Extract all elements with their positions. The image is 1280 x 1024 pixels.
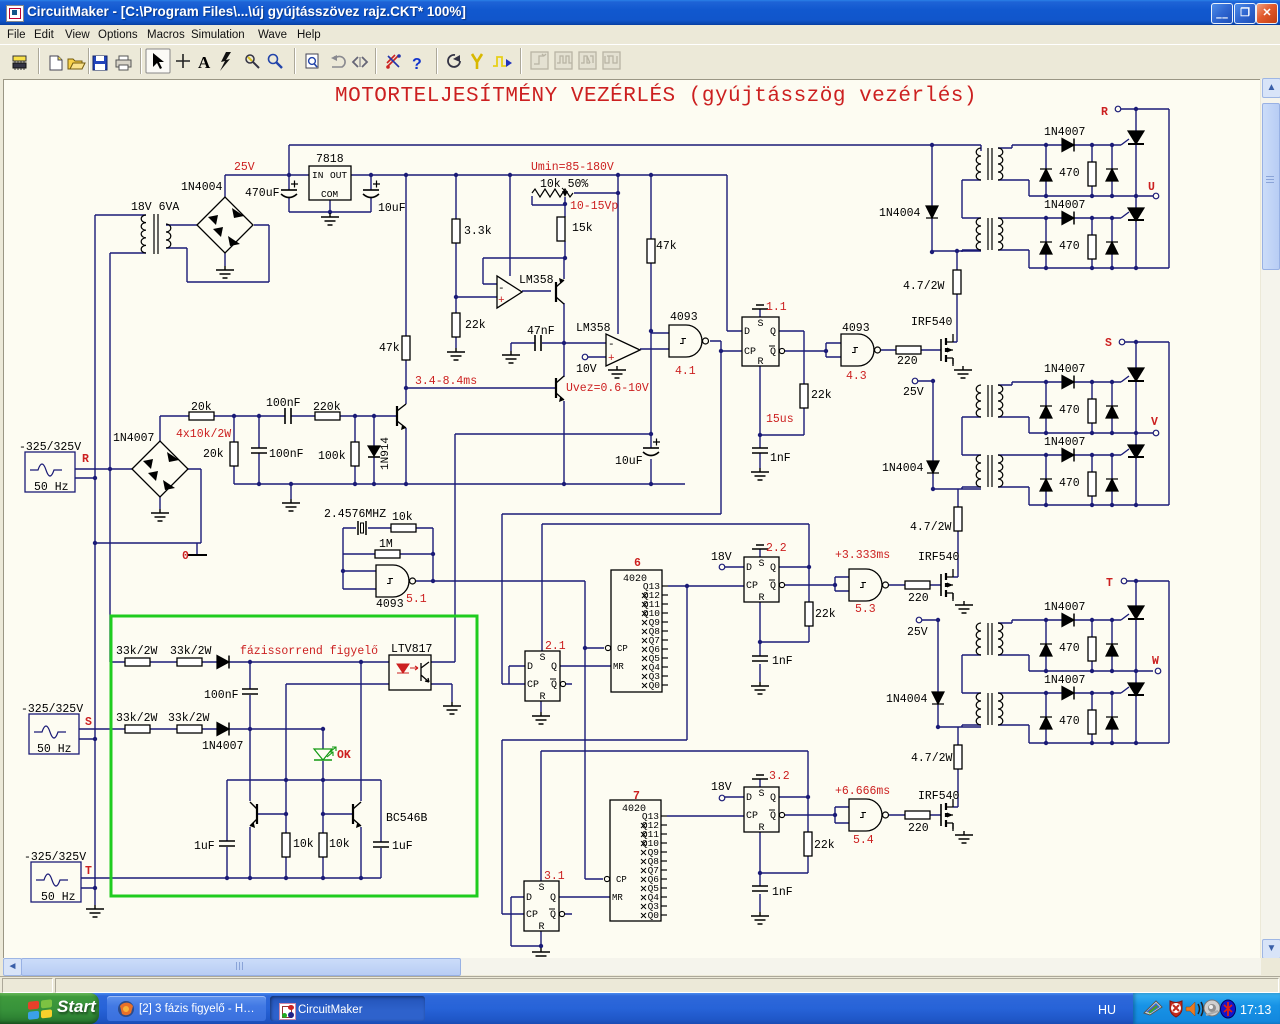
svg-text:R: R [1101, 106, 1108, 119]
svg-text:33k/2W: 33k/2W [168, 712, 210, 725]
svg-text:5.3: 5.3 [855, 603, 876, 616]
svg-text:D: D [746, 793, 752, 804]
svg-text:6: 6 [634, 557, 641, 570]
svg-text:IN: IN [312, 170, 323, 181]
svg-text:3.1: 3.1 [544, 870, 565, 883]
svg-text:10uF: 10uF [378, 202, 406, 215]
svg-text:S: S [85, 716, 92, 729]
svg-text:33k/2W: 33k/2W [116, 712, 158, 725]
svg-text:BC546B: BC546B [386, 812, 428, 825]
svg-text:-325/325V: -325/325V [19, 441, 81, 454]
svg-text:22k: 22k [465, 319, 486, 332]
svg-text:4.7/2W: 4.7/2W [910, 521, 952, 534]
svg-text:100nF: 100nF [269, 448, 304, 461]
svg-text:20k: 20k [203, 448, 224, 461]
svg-text:47nF: 47nF [527, 325, 555, 338]
svg-text:R: R [759, 593, 765, 604]
svg-text:4093: 4093 [376, 598, 404, 611]
svg-text:Q: Q [550, 910, 556, 921]
svg-text:CP: CP [526, 910, 538, 921]
svg-text:R: R [759, 823, 765, 834]
svg-text:15k: 15k [572, 222, 593, 235]
svg-text:-325/325V: -325/325V [24, 851, 86, 864]
svg-text:S: S [759, 789, 765, 800]
svg-text:22k: 22k [814, 839, 835, 852]
svg-text:22k: 22k [811, 389, 832, 402]
svg-text:25V: 25V [907, 626, 928, 639]
svg-text:50 Hz: 50 Hz [34, 481, 69, 494]
svg-text:470: 470 [1059, 477, 1080, 490]
svg-text:220: 220 [897, 355, 918, 368]
svg-text:7: 7 [633, 790, 640, 803]
svg-text:Uvez=0.6-10V: Uvez=0.6-10V [566, 382, 649, 395]
svg-text:W: W [1152, 655, 1159, 668]
svg-text:22k: 22k [815, 608, 836, 621]
svg-text:20k: 20k [191, 401, 212, 414]
svg-text:Q: Q [770, 793, 776, 804]
svg-text:220: 220 [908, 592, 929, 605]
svg-text:1nF: 1nF [770, 452, 791, 465]
svg-text:CP: CP [617, 644, 628, 654]
svg-text:220: 220 [908, 822, 929, 835]
svg-text:+: + [608, 353, 615, 365]
svg-text:470: 470 [1059, 240, 1080, 253]
svg-text:470: 470 [1059, 642, 1080, 655]
svg-text:5.4: 5.4 [853, 834, 874, 847]
svg-text:50 Hz: 50 Hz [41, 891, 76, 904]
svg-text:CP: CP [616, 875, 627, 885]
svg-text:Q: Q [770, 811, 776, 822]
svg-text:10uF: 10uF [615, 455, 643, 468]
svg-text:1M: 1M [379, 538, 393, 551]
svg-text:470: 470 [1059, 167, 1080, 180]
svg-text:MR: MR [612, 893, 623, 903]
svg-text:Q: Q [770, 563, 776, 574]
svg-text:3.2: 3.2 [769, 770, 790, 783]
svg-text:R: R [540, 692, 546, 703]
svg-text:Q: Q [770, 327, 776, 338]
svg-text:10V: 10V [576, 363, 597, 376]
svg-text:1.1: 1.1 [766, 301, 787, 314]
svg-text:R: R [758, 357, 764, 368]
svg-text:1N4004: 1N4004 [879, 207, 921, 220]
svg-text:470: 470 [1059, 715, 1080, 728]
svg-text:T: T [1106, 577, 1113, 590]
svg-text:S: S [759, 559, 765, 570]
svg-text:IRF540: IRF540 [918, 790, 960, 803]
svg-text:15us: 15us [766, 413, 794, 426]
svg-text:-: - [498, 283, 505, 295]
svg-text:1N4007: 1N4007 [1044, 601, 1085, 614]
svg-text:47k: 47k [656, 240, 677, 253]
svg-text:1N4004: 1N4004 [882, 462, 924, 475]
svg-text:47k: 47k [379, 342, 400, 355]
svg-text:1N4007: 1N4007 [1044, 126, 1085, 139]
svg-text:100nF: 100nF [266, 397, 301, 410]
svg-text:COM: COM [321, 189, 338, 200]
svg-text:D: D [527, 662, 533, 673]
svg-text:Umin=85-180V: Umin=85-180V [531, 161, 614, 174]
svg-text:1N4007: 1N4007 [1044, 199, 1085, 212]
svg-text:Q: Q [550, 893, 556, 904]
svg-text:OK: OK [337, 749, 351, 762]
svg-text:S: S [540, 653, 546, 664]
svg-text:-: - [608, 339, 615, 351]
svg-text:MOTORTELJESÍTMÉNY VEZÉRLÉS (gy: MOTORTELJESÍTMÉNY VEZÉRLÉS (gyújtásszög … [335, 84, 977, 108]
svg-text:1N4007: 1N4007 [113, 432, 154, 445]
svg-text:10k: 10k [293, 838, 314, 851]
svg-text:18V: 18V [711, 781, 732, 794]
svg-text:25V: 25V [903, 386, 924, 399]
svg-text:18V 6VA: 18V 6VA [131, 201, 179, 214]
svg-text:33k/2W: 33k/2W [116, 645, 158, 658]
svg-text:470uF: 470uF [245, 187, 280, 200]
svg-text:-325/325V: -325/325V [21, 703, 83, 716]
svg-text:18V: 18V [711, 551, 732, 564]
svg-text:1N4007: 1N4007 [1044, 436, 1085, 449]
svg-text:V: V [1151, 416, 1158, 429]
svg-text:U: U [1148, 181, 1155, 194]
svg-text:+6.666ms: +6.666ms [835, 785, 890, 798]
svg-text:+3.333ms: +3.333ms [835, 549, 890, 562]
svg-text:50 Hz: 50 Hz [37, 743, 72, 756]
svg-text:5.1: 5.1 [406, 593, 427, 606]
svg-text:S: S [539, 883, 545, 894]
svg-text:1N4004: 1N4004 [886, 693, 928, 706]
svg-text:10k: 10k [392, 511, 413, 524]
svg-text:2.1: 2.1 [545, 640, 566, 653]
svg-text:4.1: 4.1 [675, 365, 696, 378]
svg-text:D: D [746, 563, 752, 574]
svg-text:+: + [498, 295, 505, 307]
svg-text:D: D [526, 893, 532, 904]
svg-text:10-15Vp: 10-15Vp [570, 200, 618, 213]
svg-text:1N4007: 1N4007 [1044, 674, 1085, 687]
svg-text:Q: Q [551, 680, 557, 691]
svg-text:CP: CP [527, 680, 539, 691]
svg-text:LM358: LM358 [576, 322, 611, 335]
svg-text:Q: Q [551, 662, 557, 673]
svg-text:Q0: Q0 [649, 680, 661, 691]
svg-text:CP: CP [746, 811, 758, 822]
svg-text:3.4-8.4ms: 3.4-8.4ms [415, 375, 477, 388]
svg-text:IRF540: IRF540 [918, 551, 960, 564]
svg-text:0: 0 [182, 550, 189, 563]
svg-text:3.3k: 3.3k [464, 225, 492, 238]
svg-text:220k: 220k [313, 401, 341, 414]
svg-text:LM358: LM358 [519, 274, 554, 287]
svg-text:Q: Q [770, 581, 776, 592]
svg-text:1nF: 1nF [772, 886, 793, 899]
svg-text:R: R [539, 922, 545, 933]
svg-text:1N4007: 1N4007 [1044, 363, 1085, 376]
svg-text:S: S [1105, 337, 1112, 350]
svg-text:25V: 25V [234, 161, 255, 174]
svg-text:2.4576MHZ: 2.4576MHZ [324, 508, 386, 521]
svg-text:4.7/2W: 4.7/2W [911, 752, 953, 765]
svg-text:OUT: OUT [330, 170, 347, 181]
svg-text:1N914: 1N914 [380, 437, 392, 470]
svg-text:10k: 10k [329, 838, 350, 851]
svg-text:1N4007: 1N4007 [202, 740, 243, 753]
svg-text:Q0: Q0 [648, 910, 660, 921]
svg-text:33k/2W: 33k/2W [170, 645, 212, 658]
svg-text:D: D [744, 327, 750, 338]
svg-text:1N4004: 1N4004 [181, 181, 223, 194]
svg-text:1nF: 1nF [772, 655, 793, 668]
svg-text:2.2: 2.2 [766, 542, 787, 555]
svg-text:4.7/2W: 4.7/2W [903, 280, 945, 293]
svg-text:100k: 100k [318, 450, 346, 463]
svg-text:10k 50%: 10k 50% [540, 178, 588, 191]
svg-text:1uF: 1uF [392, 840, 413, 853]
svg-text:4093: 4093 [670, 311, 698, 324]
svg-text:CP: CP [746, 581, 758, 592]
svg-text:fázissorrend figyelő: fázissorrend figyelő [240, 645, 378, 658]
svg-text:4.3: 4.3 [846, 370, 867, 383]
svg-text:100nF: 100nF [204, 689, 239, 702]
svg-text:1uF: 1uF [194, 840, 215, 853]
svg-text:R: R [82, 453, 89, 466]
svg-text:IRF540: IRF540 [911, 316, 953, 329]
svg-text:CP: CP [744, 347, 756, 358]
svg-text:7818: 7818 [316, 153, 344, 166]
svg-text:4093: 4093 [842, 322, 870, 335]
svg-text:470: 470 [1059, 404, 1080, 417]
svg-text:MR: MR [613, 662, 624, 672]
svg-text:Q: Q [770, 347, 776, 358]
svg-text:T: T [85, 865, 92, 878]
svg-text:4x10k/2W: 4x10k/2W [176, 428, 231, 441]
svg-text:LTV817: LTV817 [391, 643, 432, 656]
svg-text:S: S [758, 319, 764, 330]
